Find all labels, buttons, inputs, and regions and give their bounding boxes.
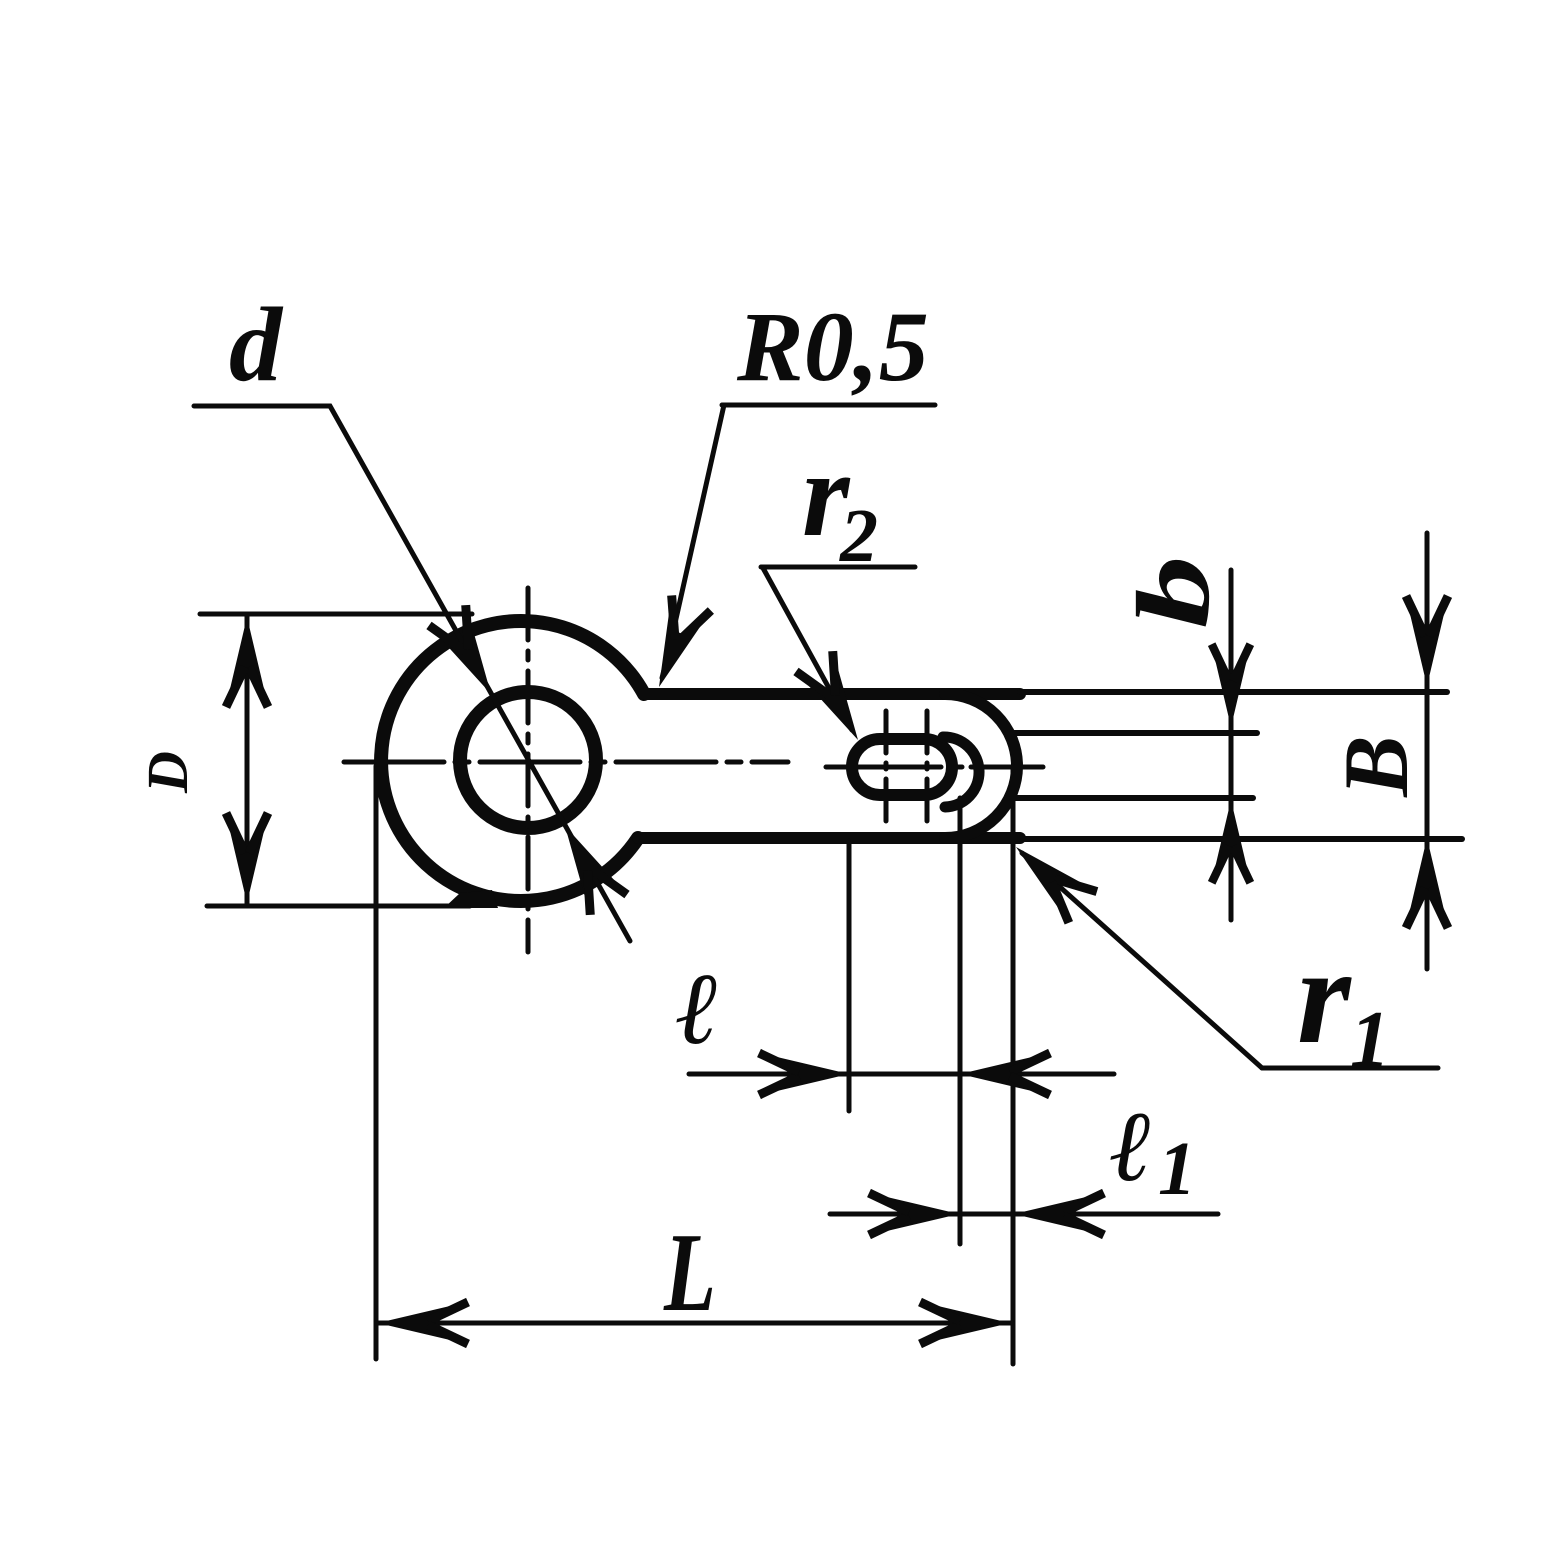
inner arc r2 right — [943, 737, 979, 807]
L arrow left — [378, 1302, 468, 1344]
D dimension line — [245, 614, 250, 906]
r2 arrow — [796, 651, 876, 750]
d label underline and leader — [194, 406, 630, 941]
l1 arrow left — [869, 1193, 959, 1235]
B arrow upper — [1406, 596, 1448, 686]
svg-text:r: r — [1297, 919, 1352, 1072]
svg-text:2: 2 — [839, 494, 878, 578]
eye outer circle — [381, 621, 644, 901]
scan wedge at circle tangent — [444, 890, 498, 908]
svg-text:B: B — [1325, 735, 1427, 797]
svg-text:R0,5: R0,5 — [736, 291, 929, 402]
l1 arrow right — [1014, 1193, 1104, 1235]
L arrow right — [920, 1302, 1010, 1344]
r1 leader — [1022, 853, 1262, 1068]
head end cap arc — [945, 694, 1017, 838]
r2 leader — [763, 568, 852, 730]
d arrow lower — [547, 816, 627, 915]
horizontal centerline left — [344, 760, 788, 765]
b upper extension line — [1008, 730, 1257, 736]
l arrow right — [960, 1053, 1050, 1095]
svg-text:L: L — [663, 1211, 716, 1335]
b arrow upper — [1212, 644, 1251, 727]
shank top outline — [644, 688, 1020, 700]
hole d circle — [460, 692, 596, 828]
b lower extension line — [1012, 795, 1253, 801]
l dimension line — [689, 1072, 1114, 1077]
r1 arrow — [1002, 831, 1097, 922]
B dimension line — [1425, 533, 1430, 969]
l1 dimension line — [830, 1212, 1218, 1217]
R0,5 leader — [662, 405, 724, 678]
svg-text:ℓ: ℓ — [676, 953, 720, 1066]
L dimension line — [376, 1321, 1012, 1326]
R0,5 arrow — [639, 595, 710, 694]
r2 label underline — [761, 565, 915, 570]
svg-text:d: d — [229, 286, 284, 403]
l extension line left — [847, 841, 852, 1111]
L extension line left — [374, 766, 379, 1359]
svg-text:1: 1 — [1158, 1127, 1196, 1211]
l extension line right — [958, 798, 963, 1244]
D top extension line — [200, 612, 472, 617]
l arrow left — [759, 1053, 849, 1095]
d arrow upper — [429, 605, 509, 704]
r1 label shelf — [1262, 1066, 1438, 1071]
D arrow up — [226, 617, 268, 707]
svg-text:D: D — [135, 751, 200, 794]
b arrow lower — [1212, 800, 1251, 883]
svg-text:1: 1 — [1350, 996, 1390, 1084]
b dimension line — [1229, 570, 1234, 920]
svg-text:b: b — [1116, 556, 1231, 629]
l1 extension line right — [1011, 766, 1016, 1364]
svg-text:ℓ: ℓ — [1110, 1091, 1153, 1202]
slot centerline right — [925, 711, 930, 823]
D arrow down — [226, 813, 268, 903]
slot centerline left — [884, 711, 889, 823]
slot stadium outline — [852, 739, 952, 795]
vertical centerline eye — [526, 588, 531, 952]
R0,5 label underline — [722, 403, 935, 408]
D bottom extension line — [207, 904, 470, 909]
bottom line thin extension — [1020, 836, 1462, 842]
horizontal centerline head — [826, 765, 1043, 770]
B arrow lower — [1406, 838, 1448, 928]
top line thin extension — [1020, 689, 1447, 695]
shank bottom outline — [638, 832, 1020, 844]
